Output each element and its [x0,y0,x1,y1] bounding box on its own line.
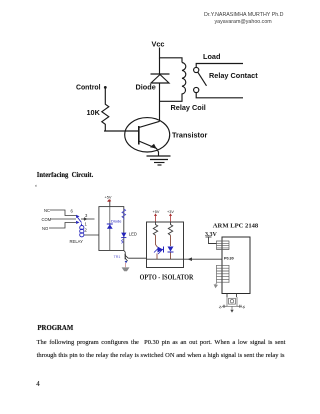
svg-text:Relay Contact: Relay Contact [209,71,258,80]
svg-text:+5V: +5V [153,210,160,214]
svg-text:Diode: Diode [111,218,122,223]
svg-text:Transistor: Transistor [172,131,207,140]
svg-text:RELAY: RELAY [70,239,84,244]
svg-text:Load: Load [203,52,220,61]
svg-text:1: 1 [85,222,88,227]
svg-text:Vcc: Vcc [152,39,165,48]
svg-text:NO: NO [42,226,49,231]
svg-text:+5V: +5V [105,194,112,199]
svg-text:3: 3 [85,213,88,218]
svg-text:+3V: +3V [167,210,174,214]
svg-text:P0.30: P0.30 [224,256,234,260]
svg-text:6: 6 [71,209,74,214]
svg-text:OPTO - ISOLATOR: OPTO - ISOLATOR [140,274,194,281]
svg-text:2: 2 [85,228,88,233]
svg-text:LED: LED [129,232,137,237]
svg-text:TR1: TR1 [114,255,121,259]
svg-text:NC: NC [44,208,50,213]
svg-text:ARM LPC 2148: ARM LPC 2148 [213,222,259,229]
svg-text:Relay Coil: Relay Coil [171,103,206,112]
svg-text:Control: Control [76,85,101,92]
svg-text:10K: 10K [87,108,101,117]
svg-text:Diode: Diode [136,83,156,92]
svg-text:COM: COM [42,217,52,222]
